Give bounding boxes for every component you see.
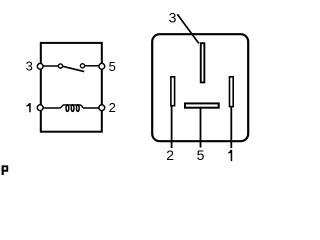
svg-text:3: 3 [169, 10, 177, 26]
svg-text:5: 5 [109, 59, 116, 74]
svg-text:2: 2 [109, 100, 116, 115]
svg-text:3: 3 [26, 58, 33, 73]
svg-text:2: 2 [166, 147, 174, 163]
svg-text:5: 5 [197, 147, 205, 163]
